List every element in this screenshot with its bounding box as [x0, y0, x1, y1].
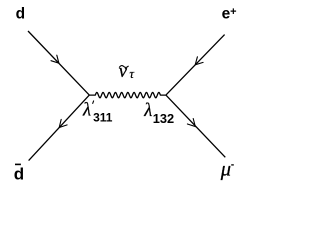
- svg-text:132: 132: [153, 111, 174, 126]
- wire: arrow on e+ line: [195, 57, 203, 65]
- svg-text:d: d: [16, 6, 25, 23]
- svg-text:311: 311: [93, 111, 113, 125]
- wire: incoming e+ line: [166, 35, 225, 96]
- wire: incoming d quark line: [28, 31, 89, 95]
- wire: outgoing dbar quark line: [29, 95, 90, 161]
- wire: sneutrino wavy propagator: [89, 92, 166, 97]
- svg-text:d: d: [14, 164, 24, 183]
- svg-text:λ: λ: [143, 101, 152, 121]
- wire: arrow on dbar line: [59, 119, 67, 127]
- svg-text:μ: μ: [220, 159, 231, 181]
- svg-text:λ: λ: [82, 101, 91, 121]
- wire: arrow on mu- line: [187, 119, 195, 127]
- svg-text:+: +: [230, 6, 236, 18]
- wire: arrow on d line: [51, 55, 59, 63]
- wire: outgoing mu- line: [166, 95, 225, 157]
- svg-text:ν: ν: [119, 62, 128, 82]
